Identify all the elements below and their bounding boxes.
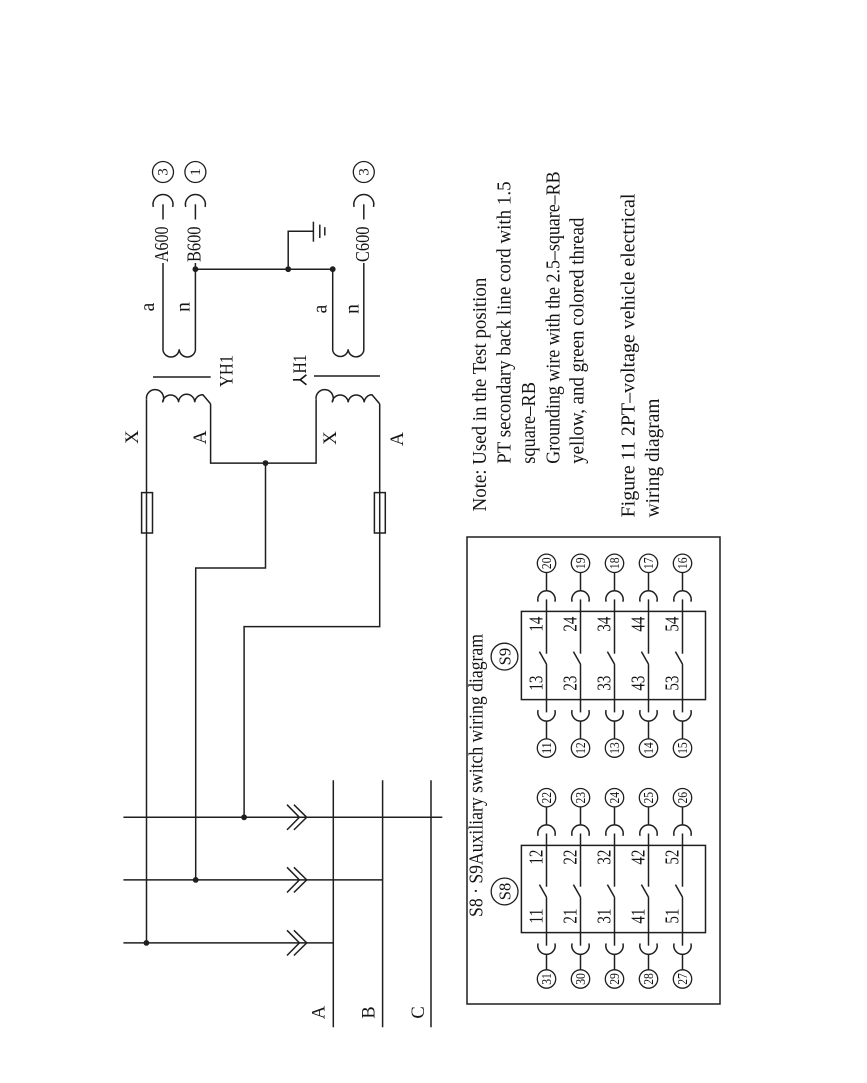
connector socket S9 row 1 right — [538, 591, 555, 602]
wire S8 contact 12 lead — [546, 834, 548, 887]
wire A600 stub — [162, 204, 164, 219]
svg-text:PT secondary back line cord wi: PT secondary back line cord with 1.5 — [494, 181, 516, 463]
svg-text:B: B — [360, 1006, 380, 1018]
wire S9 contact 24 lead — [580, 599, 582, 653]
terminal 22 circled (S8 row 1 right) — [537, 789, 555, 807]
wire S8 row 4 right pigtail — [648, 807, 650, 825]
transformer YH2 primary winding — [316, 390, 380, 404]
connector socket S8 row 2 right — [572, 825, 589, 836]
terminal 23 circled (S8 row 2 right) — [571, 789, 589, 807]
label S8 circled — [491, 878, 518, 905]
transformer YH1 secondary winding — [163, 349, 195, 357]
svg-text:yellow, and green colored thre: yellow, and green colored thread — [567, 218, 589, 464]
svg-text:30: 30 — [574, 973, 589, 985]
connector socket S9 row 1 left — [538, 710, 555, 721]
svg-text:YH1: YH1 — [218, 355, 238, 387]
terminal 12 circled (S9 row 2 left) — [571, 739, 589, 757]
wire S8 contact 11 lead — [546, 897, 548, 946]
wire S9 row 4 right pigtail — [648, 573, 650, 591]
wire S8 row 3 right pigtail — [614, 807, 616, 825]
switch S8 box — [521, 845, 705, 932]
transformer YH2 secondary winding — [333, 349, 364, 357]
connector socket S9 row 3 right — [606, 591, 623, 602]
svg-text:19: 19 — [574, 558, 589, 570]
svg-text:S8: S8 — [496, 883, 515, 900]
wire a600 lead — [162, 263, 164, 351]
svg-text:n: n — [174, 302, 195, 312]
svg-text:20: 20 — [540, 558, 555, 570]
connector socket C600 — [354, 194, 374, 206]
svg-text:13: 13 — [526, 676, 548, 691]
wire S8 row 1 right pigtail — [546, 807, 548, 825]
wire S9 contact 34 lead — [614, 599, 616, 653]
label YH2 — [291, 355, 311, 385]
label S9 circled — [491, 643, 518, 670]
svg-text:B600: B600 — [184, 227, 206, 263]
busbar C — [430, 780, 432, 1027]
svg-text:3: 3 — [156, 168, 172, 176]
wire S8 contact 51 lead — [682, 897, 684, 946]
plug-in contact arrow 2 — [287, 867, 299, 892]
busbar A — [332, 780, 334, 1027]
svg-text:51: 51 — [662, 909, 684, 924]
svg-text:a: a — [138, 302, 159, 311]
svg-text:29: 29 — [608, 973, 623, 985]
node PT A junction — [263, 460, 269, 466]
wire busbar drop to B — [123, 879, 382, 881]
connector socket S8 row 5 left — [674, 943, 691, 954]
connector socket S8 row 5 right — [674, 825, 691, 836]
connector socket S8 row 2 left — [572, 943, 589, 954]
connector socket S8 row 4 right — [640, 825, 657, 836]
svg-text:12: 12 — [526, 850, 548, 865]
svg-text:A: A — [310, 1005, 330, 1019]
wire S9 row 5 left pigtail — [682, 721, 684, 739]
wire S8 contact 32 lead — [614, 834, 616, 887]
wire ground branch — [288, 231, 313, 269]
wire PT1 A to PT2 X — [211, 399, 317, 463]
wire S9 row 2 right pigtail — [580, 573, 582, 591]
wire S9 contact 43 lead — [648, 664, 650, 712]
switch S8 blade 31-32 — [607, 885, 614, 898]
connector socket S8 row 3 right — [606, 825, 623, 836]
wire S8 row 1 left pigtail — [546, 954, 548, 969]
svg-text:41: 41 — [628, 909, 650, 924]
terminal 3 (C600) — [353, 162, 374, 183]
terminal 28 circled (S8 row 4 left) — [639, 970, 657, 988]
ground — [312, 222, 314, 242]
connector socket B600 — [185, 194, 205, 206]
svg-text:27: 27 — [676, 973, 691, 985]
svg-text:31: 31 — [540, 973, 555, 985]
wire n bus — [195, 268, 332, 270]
terminal 16 circled (S9 row 5 right) — [673, 554, 691, 572]
terminal 19 circled (S9 row 2 right) — [571, 554, 589, 572]
node center tap drop junction — [193, 877, 199, 883]
wire n600 lead — [194, 263, 196, 351]
terminal 1 (B600) — [185, 162, 206, 183]
svg-text:11: 11 — [540, 742, 555, 754]
connector socket S9 row 5 left — [674, 710, 691, 721]
plug-in contact arrow 1 — [287, 930, 299, 955]
wire PT2 A lead — [244, 404, 380, 817]
svg-text:32: 32 — [594, 850, 616, 865]
svg-text:3: 3 — [357, 168, 373, 176]
connector socket S9 row 3 left — [606, 710, 623, 721]
connector socket S8 row 1 right — [538, 825, 555, 836]
svg-text:n: n — [343, 304, 364, 314]
svg-text:22: 22 — [540, 792, 555, 804]
svg-text:15: 15 — [676, 742, 691, 754]
node n bus junction — [193, 266, 199, 272]
wire C600 stub — [363, 204, 365, 219]
connector socket S9 row 5 right — [674, 591, 691, 602]
svg-text:43: 43 — [628, 676, 650, 691]
svg-text:33: 33 — [594, 676, 616, 691]
connector socket S9 row 2 left — [572, 710, 589, 721]
svg-text:A: A — [387, 432, 408, 446]
svg-text:17: 17 — [642, 558, 657, 570]
node PT2 A drop junction — [241, 814, 247, 820]
svg-text:42: 42 — [628, 850, 650, 865]
svg-text:H1: H1 — [291, 355, 311, 374]
connector socket S8 row 1 left — [538, 943, 555, 954]
svg-text:24: 24 — [560, 617, 582, 632]
transformer YH2 core — [314, 375, 380, 377]
svg-text:54: 54 — [662, 617, 684, 632]
svg-text:12: 12 — [574, 742, 589, 754]
node ground tap — [285, 266, 291, 272]
svg-text:C600: C600 — [352, 227, 374, 263]
wire S9 contact 13 lead — [546, 664, 548, 712]
svg-text:44: 44 — [628, 617, 650, 632]
wire S9 contact 54 lead — [682, 599, 684, 653]
wire S8 contact 21 lead — [580, 897, 582, 946]
svg-text:X: X — [320, 431, 341, 445]
wire S9 row 4 left pigtail — [648, 721, 650, 739]
connector socket S8 row 3 left — [606, 943, 623, 954]
busbar B — [382, 780, 384, 1027]
svg-text:C: C — [409, 1006, 429, 1018]
wire B600 stub — [194, 204, 196, 219]
svg-text:Grounding wire with the 2.5–sq: Grounding wire with the 2.5–square–RB — [542, 171, 564, 463]
svg-text:11: 11 — [526, 909, 548, 924]
wire S9 row 3 left pigtail — [614, 721, 616, 739]
svg-text:25: 25 — [642, 792, 657, 804]
switch S8 blade 51-52 — [675, 885, 682, 898]
svg-text:S8 · S9Auxiliary switch wiring: S8 · S9Auxiliary switch wiring diagram — [467, 634, 488, 917]
switch S9 blade 13-14 — [539, 652, 546, 665]
wire PT2 a lead — [332, 269, 334, 350]
svg-text:A600: A600 — [151, 227, 173, 263]
wire S8 row 5 left pigtail — [682, 954, 684, 969]
terminal 31 circled (S8 row 1 left) — [537, 970, 555, 988]
wire S9 row 3 right pigtail — [614, 573, 616, 591]
wire PT1 X lead — [146, 399, 148, 943]
svg-text:1: 1 — [188, 168, 204, 176]
svg-text:28: 28 — [642, 973, 657, 985]
svg-text:Note: Used in the Test positio: Note: Used in the Test position — [469, 278, 491, 512]
svg-text:21: 21 — [560, 909, 582, 924]
svg-text:24: 24 — [608, 792, 623, 804]
switch S9 blade 23-24 — [573, 652, 580, 665]
terminal 26 circled (S8 row 5 right) — [673, 789, 691, 807]
terminal 30 circled (S8 row 2 left) — [571, 970, 589, 988]
node PT2 a junction — [330, 266, 336, 272]
wire S9 row 2 left pigtail — [580, 721, 582, 739]
fuse FU2 — [374, 493, 385, 533]
fuse FU1 — [142, 493, 153, 533]
terminal 29 circled (S8 row 3 left) — [605, 970, 623, 988]
terminal 3 (A600) — [153, 162, 174, 183]
terminal 14 circled (S9 row 4 left) — [639, 739, 657, 757]
wire S8 row 4 left pigtail — [648, 954, 650, 969]
terminal 27 circled (S8 row 5 left) — [673, 970, 691, 988]
plug-in contact arrow 3 — [287, 805, 299, 830]
wire S9 contact 44 lead — [648, 599, 650, 653]
svg-text:23: 23 — [560, 676, 582, 691]
wire S8 contact 42 lead — [648, 834, 650, 887]
wire S8 row 5 right pigtail — [682, 807, 684, 825]
svg-text:22: 22 — [560, 850, 582, 865]
wire c600 lead — [363, 263, 365, 351]
wire S8 row 2 right pigtail — [580, 807, 582, 825]
terminal 18 circled (S9 row 3 right) — [605, 554, 623, 572]
connector socket S9 row 2 right — [572, 591, 589, 602]
wire S9 contact 23 lead — [580, 664, 582, 712]
terminal 24 circled (S8 row 3 right) — [605, 789, 623, 807]
transformer YH1 primary winding — [146, 390, 210, 404]
wire S8 row 2 left pigtail — [580, 954, 582, 969]
connector socket S9 row 4 right — [640, 591, 657, 602]
svg-text:16: 16 — [676, 558, 691, 570]
switch S8 blade 41-42 — [641, 885, 648, 898]
transformer YH1 core — [153, 376, 211, 378]
switch S8 blade 11-12 — [539, 885, 546, 898]
wire S8 row 3 left pigtail — [614, 954, 616, 969]
wire S8 contact 52 lead — [682, 834, 684, 887]
svg-text:14: 14 — [526, 617, 548, 632]
wire busbar drop to A — [123, 942, 333, 944]
wire S9 row 1 right pigtail — [546, 573, 548, 591]
svg-text:S9: S9 — [496, 648, 515, 665]
terminal 25 circled (S8 row 4 right) — [639, 789, 657, 807]
wire S9 contact 53 lead — [682, 664, 684, 712]
wire S9 contact 33 lead — [614, 664, 616, 712]
svg-text:26: 26 — [676, 792, 691, 804]
wire S9 row 5 right pigtail — [682, 573, 684, 591]
svg-text:13: 13 — [608, 742, 623, 754]
terminal 15 circled (S9 row 5 left) — [673, 739, 691, 757]
auxiliary switch outer box — [467, 537, 720, 1004]
wire busbar drop to C — [123, 816, 442, 818]
svg-text:34: 34 — [594, 617, 616, 632]
wire S9 contact 14 lead — [546, 599, 548, 653]
connector socket S9 row 4 left — [640, 710, 657, 721]
wire S8 contact 22 lead — [580, 834, 582, 887]
svg-text:52: 52 — [662, 850, 684, 865]
svg-text:23: 23 — [574, 792, 589, 804]
switch S9 blade 43-44 — [641, 652, 648, 665]
svg-text:X: X — [122, 430, 143, 444]
svg-text:14: 14 — [642, 742, 657, 754]
svg-text:53: 53 — [662, 676, 684, 691]
svg-text:a: a — [311, 304, 332, 313]
wire S8 contact 31 lead — [614, 897, 616, 946]
svg-text:18: 18 — [608, 558, 623, 570]
terminal 13 circled (S9 row 3 left) — [605, 739, 623, 757]
terminal 17 circled (S9 row 4 right) — [639, 554, 657, 572]
switch S9 blade 53-54 — [675, 652, 682, 665]
connector socket A600 — [153, 194, 173, 206]
switch S8 blade 21-22 — [573, 885, 580, 898]
connector socket S8 row 4 left — [640, 943, 657, 954]
wire S9 row 1 left pigtail — [546, 721, 548, 739]
terminal 20 circled (S9 row 1 right) — [537, 554, 555, 572]
svg-text:wiring diagram: wiring diagram — [642, 398, 664, 517]
terminal 11 circled (S9 row 1 left) — [537, 739, 555, 757]
wire PT1/PT2 A center tap — [196, 463, 266, 880]
svg-text:31: 31 — [594, 909, 616, 924]
switch S9 blade 33-34 — [607, 652, 614, 665]
node X drop junction — [144, 940, 150, 946]
svg-text:square–RB: square–RB — [518, 382, 540, 464]
switch S9 box — [521, 611, 705, 699]
wire S8 contact 41 lead — [648, 897, 650, 946]
svg-text:A: A — [190, 430, 211, 444]
svg-text:Figure 11 2PT–voltage vehicle: Figure 11 2PT–voltage vehicle electrical — [617, 193, 639, 517]
